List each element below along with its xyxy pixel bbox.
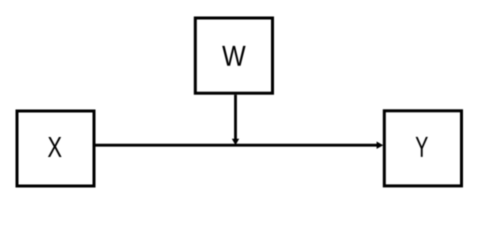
wire W down <box>234 95 237 140</box>
box W <box>195 18 272 93</box>
arrowhead into Y <box>377 142 384 149</box>
box X <box>17 111 94 186</box>
label Y <box>416 137 428 157</box>
arrowhead onto X-Y wire <box>232 139 239 146</box>
box Y <box>384 111 461 186</box>
label X <box>48 137 62 157</box>
wire X to Y <box>96 144 378 147</box>
label W <box>222 46 245 66</box>
